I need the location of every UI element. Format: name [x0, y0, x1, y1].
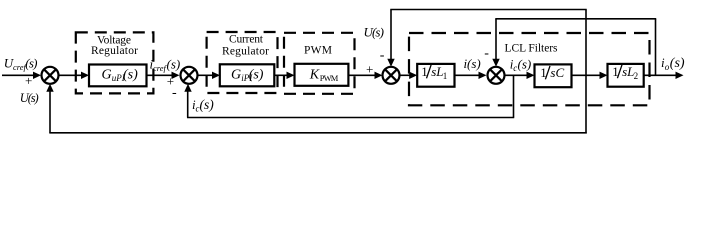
wire: current regulator to PWM [274, 72, 294, 79]
svg-text:1: 1 [443, 71, 448, 81]
svg-text:(s): (s) [249, 68, 264, 83]
block G_uPI(s) voltage regulator [89, 65, 147, 87]
wire: U(s) feedback tap up from between 1/sC and 1/sL2 [585, 10, 587, 76]
wire: i_c(s) feedback tap down after junction 4 [513, 75, 515, 117]
wire: top i_o(s) feedback horizontal [495, 18, 656, 20]
block G_iPI(s) current regulator [220, 64, 274, 86]
svg-text:sL: sL [431, 64, 443, 79]
dashed box: LCL Filters [409, 33, 650, 105]
node label i(s) [464, 56, 481, 71]
summing junction 1 [42, 67, 59, 84]
svg-text:(s): (s) [467, 56, 481, 71]
label K_PWM [309, 68, 339, 84]
wire: 1/sC to 1/sL2 [572, 72, 608, 79]
wire: PWM to junction 3 [348, 72, 382, 79]
wire: bottom i_c(s) feedback up into junction 2 [184, 84, 191, 118]
wire: junction 1 to voltage regulator [59, 72, 90, 79]
svg-text:-: - [172, 86, 177, 101]
wire: 1/sL2 to output i_o(s) [644, 72, 684, 79]
wire: voltage regulator to junction 2 [147, 72, 180, 79]
svg-text:(s): (s) [167, 56, 181, 71]
node label i_c(s) bottom [192, 97, 214, 114]
wire: bottom U(s) feedback horizontal [49, 132, 586, 134]
node label i_cref(s) [150, 56, 181, 73]
svg-text:K: K [309, 68, 320, 83]
svg-text:cref: cref [153, 63, 168, 73]
svg-text:Current: Current [229, 34, 264, 46]
wire: top i_o(s) feedback down into junction 4 [492, 19, 499, 67]
svg-text:(s): (s) [123, 68, 138, 83]
dashed box: Current Regulator [207, 32, 278, 93]
block K_PWM [295, 64, 349, 86]
svg-text:sC: sC [550, 65, 564, 80]
svg-text:-: - [484, 46, 489, 61]
dashed box: PWM [284, 33, 355, 94]
svg-text:G: G [102, 68, 112, 83]
svg-text:(s): (s) [670, 56, 685, 71]
wire: bottom i_c(s) feedback horizontal [187, 117, 514, 119]
summing junction 4 [488, 67, 505, 84]
node label i_o(s) [661, 55, 685, 72]
wire: junction 3 to 1/sL1 [400, 72, 418, 79]
dashed box: Voltage Regulator [76, 32, 154, 93]
wire: bottom U(s) feedback up into junction 1 [46, 84, 53, 133]
label G_iPI(s) [231, 68, 264, 84]
label 1/sL1 [421, 64, 447, 81]
svg-text:Regulator: Regulator [222, 46, 269, 58]
wire: U(s) feedback tap down from between 1/sC and 1/sL2 [585, 75, 587, 133]
summing junction 3 [383, 67, 400, 84]
svg-text:PWM: PWM [320, 73, 339, 83]
label G_uPI(s) [102, 68, 139, 84]
wire: top U(s) feedback down into junction 3 [387, 10, 394, 67]
svg-text:G: G [231, 68, 241, 83]
svg-text:+: + [366, 62, 373, 77]
block 1/sC [535, 64, 572, 87]
node label U_cref(s) [4, 56, 37, 73]
svg-text:U(s): U(s) [364, 25, 384, 40]
label 1/sC [540, 65, 564, 80]
svg-text:(s): (s) [25, 56, 37, 71]
label 1/sL2 [612, 64, 638, 81]
wire: junction 4 to 1/sC [505, 72, 535, 79]
wire: i_o(s) feedback tap up after 1/sL2 [655, 19, 657, 76]
wire: junction 2 to current regulator [198, 72, 221, 79]
svg-text:PWM: PWM [304, 45, 332, 57]
wire: input U_cref(s) into summing junction 1 [2, 72, 41, 79]
svg-text:sL: sL [622, 64, 634, 79]
wire: 1/sL1 to junction 4 [455, 72, 487, 79]
svg-text:(s): (s) [518, 56, 532, 71]
summing junction 2 [181, 67, 198, 84]
svg-text:2: 2 [634, 71, 639, 81]
svg-text:LCL Filters: LCL Filters [505, 43, 559, 55]
svg-text:-: - [380, 48, 385, 63]
node label i_c(s) [510, 56, 531, 73]
block 1/sL2 [608, 64, 644, 87]
svg-text:U(s): U(s) [20, 91, 39, 105]
svg-text:(s): (s) [200, 97, 215, 112]
wire: top U(s) feedback horizontal [390, 9, 586, 11]
block 1/sL1 [417, 64, 454, 87]
svg-text:Regulator: Regulator [91, 45, 138, 57]
svg-text:+: + [25, 73, 32, 88]
